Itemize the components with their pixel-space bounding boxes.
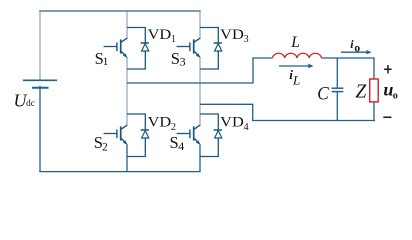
svg-text:4: 4 (244, 122, 249, 133)
svg-text:o: o (354, 43, 360, 55)
svg-text:2: 2 (171, 122, 176, 133)
svg-text:3: 3 (180, 54, 186, 68)
svg-text:2: 2 (102, 141, 108, 153)
svg-text:dc: dc (26, 99, 35, 109)
svg-text:VD: VD (220, 115, 244, 131)
svg-text:L: L (292, 72, 300, 87)
svg-text:1: 1 (103, 56, 109, 68)
svg-text:Z: Z (355, 82, 366, 103)
svg-text:1: 1 (171, 34, 176, 45)
svg-text:S: S (171, 49, 180, 68)
svg-text:VD: VD (148, 27, 172, 43)
svg-text:o: o (393, 90, 398, 101)
svg-text:C: C (317, 83, 329, 104)
svg-text:VD: VD (148, 115, 172, 131)
svg-text:3: 3 (244, 34, 249, 45)
svg-text:L: L (290, 34, 300, 51)
svg-text:4: 4 (178, 139, 184, 153)
svg-text:VD: VD (220, 27, 244, 43)
